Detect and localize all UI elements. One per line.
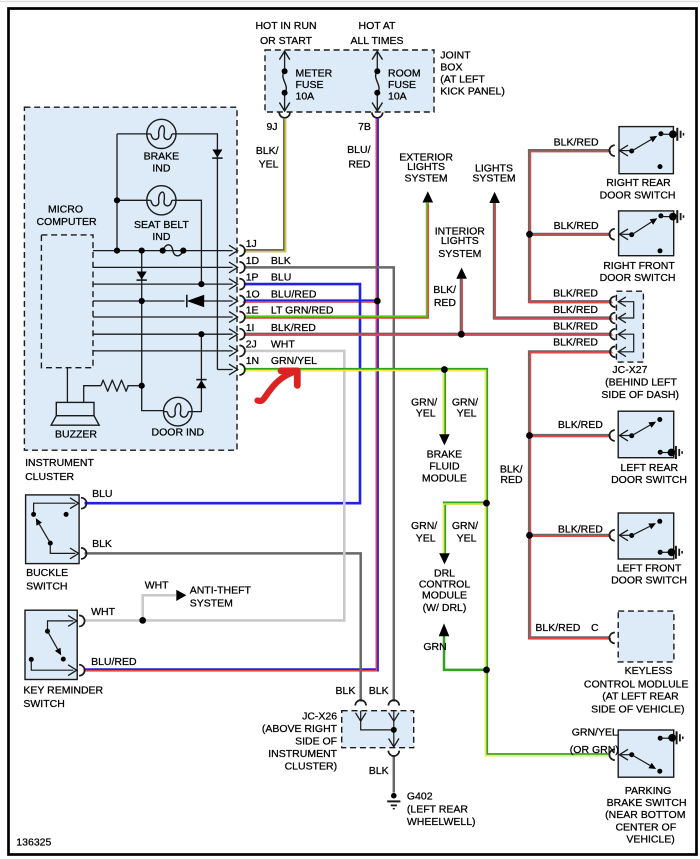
svg-text:BRAKE: BRAKE: [427, 449, 463, 461]
svg-text:COMPUTER: COMPUTER: [36, 216, 97, 228]
svg-text:VEHICLE): VEHICLE): [626, 833, 674, 845]
svg-text:LEFT REAR: LEFT REAR: [621, 462, 679, 474]
svg-text:BLK/RED: BLK/RED: [535, 622, 580, 634]
svg-text:BLK/RED: BLK/RED: [271, 322, 316, 334]
svg-text:(NEAR BOTTOM: (NEAR BOTTOM: [605, 809, 685, 821]
svg-text:GRN: GRN: [423, 641, 446, 653]
svg-text:YEL: YEL: [416, 408, 436, 420]
svg-text:BRAKE SWITCH: BRAKE SWITCH: [607, 797, 687, 809]
svg-text:SEAT BELT: SEAT BELT: [134, 219, 189, 231]
svg-text:7B: 7B: [358, 121, 371, 133]
svg-text:1N: 1N: [246, 355, 259, 367]
svg-text:1D: 1D: [246, 255, 260, 267]
svg-text:CLUSTER): CLUSTER): [285, 761, 338, 773]
svg-text:(LEFT REAR: (LEFT REAR: [407, 803, 468, 815]
svg-text:(AT LEFT: (AT LEFT: [440, 73, 485, 85]
svg-text:KEY REMINDER: KEY REMINDER: [23, 684, 103, 696]
svg-text:1O: 1O: [246, 289, 260, 301]
svg-text:BLK/: BLK/: [256, 145, 279, 157]
svg-text:DOOR IND: DOOR IND: [152, 427, 205, 439]
svg-text:GRN/YEL: GRN/YEL: [572, 726, 618, 738]
svg-text:BLU/RED: BLU/RED: [271, 289, 317, 301]
svg-text:RED: RED: [348, 158, 371, 170]
svg-text:FLUID: FLUID: [429, 460, 460, 472]
svg-text:DOOR SWITCH: DOOR SWITCH: [611, 474, 687, 486]
svg-text:INSTRUMENT: INSTRUMENT: [268, 748, 337, 760]
svg-text:JOINT: JOINT: [440, 50, 471, 62]
svg-text:METER: METER: [296, 67, 333, 79]
svg-text:LIGHTS: LIGHTS: [441, 235, 479, 247]
svg-text:LT GRN/RED: LT GRN/RED: [271, 305, 334, 317]
svg-text:HOT AT: HOT AT: [359, 20, 397, 32]
svg-text:JC-X26: JC-X26: [302, 711, 337, 723]
svg-text:CENTER OF: CENTER OF: [615, 822, 676, 834]
svg-text:IND: IND: [152, 163, 171, 175]
svg-text:MICRO: MICRO: [48, 204, 83, 216]
svg-text:PARKING: PARKING: [625, 785, 671, 797]
svg-text:RED: RED: [500, 474, 523, 486]
svg-text:GRN/: GRN/: [411, 520, 437, 532]
svg-text:ALL TIMES: ALL TIMES: [350, 35, 403, 47]
svg-text:BLK: BLK: [369, 685, 389, 697]
svg-text:CLUSTER: CLUSTER: [25, 471, 74, 483]
svg-text:ANTI-THEFT: ANTI-THEFT: [190, 584, 252, 596]
svg-text:DOOR SWITCH: DOOR SWITCH: [600, 272, 676, 284]
svg-text:JC-X27: JC-X27: [612, 364, 647, 376]
svg-text:BLK: BLK: [92, 538, 112, 550]
svg-text:SYSTEM: SYSTEM: [438, 248, 481, 260]
svg-text:(BEHIND LEFT: (BEHIND LEFT: [605, 376, 677, 388]
svg-text:FUSE: FUSE: [388, 79, 416, 91]
svg-text:CONTROL: CONTROL: [419, 578, 470, 590]
svg-text:BLK/RED: BLK/RED: [553, 337, 598, 349]
svg-text:(AT LEFT REAR: (AT LEFT REAR: [602, 691, 679, 703]
svg-text:ROOM: ROOM: [388, 67, 421, 79]
svg-text:BLU: BLU: [271, 272, 291, 284]
svg-text:1E: 1E: [246, 305, 259, 317]
svg-text:INSTRUMENT: INSTRUMENT: [25, 457, 94, 469]
svg-text:10A: 10A: [388, 91, 407, 103]
svg-text:YEL: YEL: [457, 533, 477, 545]
svg-text:2J: 2J: [246, 339, 257, 351]
svg-text:DOOR SWITCH: DOOR SWITCH: [600, 189, 676, 201]
svg-text:(ABOVE RIGHT: (ABOVE RIGHT: [262, 723, 338, 735]
svg-text:GRN/: GRN/: [452, 520, 478, 532]
svg-text:9J: 9J: [266, 121, 277, 133]
svg-text:BLK: BLK: [336, 685, 356, 697]
svg-text:BLK/: BLK/: [433, 284, 456, 296]
svg-text:BOX: BOX: [440, 62, 462, 74]
svg-text:GRN/: GRN/: [452, 396, 478, 408]
svg-text:SIDE OF DASH): SIDE OF DASH): [601, 389, 679, 401]
svg-text:YEL: YEL: [457, 408, 477, 420]
svg-text:BLK: BLK: [271, 255, 291, 267]
svg-text:LIGHTS: LIGHTS: [407, 161, 445, 173]
svg-text:WHEELWELL): WHEELWELL): [407, 816, 476, 828]
svg-text:(OR GRN): (OR GRN): [570, 744, 619, 756]
svg-text:YEL: YEL: [259, 158, 279, 170]
svg-text:RIGHT REAR: RIGHT REAR: [606, 177, 671, 189]
svg-text:WHT: WHT: [145, 579, 169, 591]
svg-text:SWITCH: SWITCH: [26, 580, 67, 592]
svg-text:BLK/RED: BLK/RED: [553, 304, 598, 316]
svg-text:136325: 136325: [16, 836, 51, 848]
svg-text:BRAKE: BRAKE: [144, 151, 180, 163]
svg-text:BLK/RED: BLK/RED: [553, 321, 598, 333]
svg-text:IND: IND: [152, 231, 171, 243]
svg-text:MODULE: MODULE: [422, 472, 467, 484]
svg-text:SIDE OF VEHICLE): SIDE OF VEHICLE): [591, 703, 684, 715]
svg-text:KICK PANEL): KICK PANEL): [440, 85, 505, 97]
svg-text:SWITCH: SWITCH: [23, 698, 64, 710]
svg-text:1I: 1I: [246, 322, 255, 334]
svg-text:SIDE OF: SIDE OF: [295, 736, 337, 748]
svg-text:KEYLESS: KEYLESS: [625, 665, 673, 677]
svg-text:BLK/RED: BLK/RED: [554, 220, 599, 232]
svg-text:LEFT FRONT: LEFT FRONT: [617, 562, 682, 574]
svg-text:BLK/RED: BLK/RED: [558, 419, 603, 431]
svg-text:SYSTEM: SYSTEM: [190, 597, 233, 609]
svg-text:HOT IN RUN: HOT IN RUN: [255, 20, 316, 32]
svg-text:1P: 1P: [246, 272, 259, 284]
svg-text:(W/ DRL): (W/ DRL): [423, 602, 467, 614]
svg-text:OR START: OR START: [260, 35, 313, 47]
svg-text:BLK/RED: BLK/RED: [558, 523, 603, 535]
svg-text:GRN/YEL: GRN/YEL: [271, 355, 317, 367]
svg-text:GRN/: GRN/: [411, 396, 437, 408]
svg-text:BLK/RED: BLK/RED: [554, 136, 599, 148]
svg-text:DOOR SWITCH: DOOR SWITCH: [611, 575, 687, 587]
svg-text:G402: G402: [407, 791, 433, 803]
svg-text:BLK: BLK: [369, 765, 389, 777]
svg-text:BLU: BLU: [92, 488, 112, 500]
svg-text:10A: 10A: [296, 91, 315, 103]
svg-text:SYSTEM: SYSTEM: [405, 172, 448, 184]
svg-text:FUSE: FUSE: [296, 79, 324, 91]
svg-text:RIGHT FRONT: RIGHT FRONT: [603, 260, 675, 272]
svg-text:RED: RED: [434, 297, 457, 309]
svg-text:CONTROL MODLULE: CONTROL MODLULE: [584, 678, 689, 690]
svg-text:YEL: YEL: [416, 533, 436, 545]
svg-text:SYSTEM: SYSTEM: [472, 172, 515, 184]
svg-text:BUZZER: BUZZER: [55, 428, 97, 440]
svg-text:WHT: WHT: [271, 339, 295, 351]
svg-text:BLU/RED: BLU/RED: [91, 656, 137, 668]
svg-text:BLU/: BLU/: [347, 144, 370, 156]
svg-text:WHT: WHT: [91, 606, 115, 618]
svg-text:MODULE: MODULE: [422, 590, 467, 602]
svg-text:1J: 1J: [246, 238, 257, 250]
svg-text:BLK/RED: BLK/RED: [553, 288, 598, 300]
svg-text:C: C: [591, 622, 599, 634]
svg-text:BUCKLE: BUCKLE: [26, 567, 68, 579]
